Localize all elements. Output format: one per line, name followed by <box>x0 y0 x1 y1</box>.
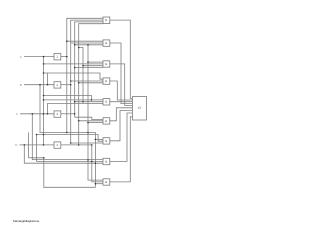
inverter IC <box>54 111 61 117</box>
vertical 36.5 to G8 <box>37 135 104 162</box>
wire B jog x47.5 up to y73 <box>47 73 49 85</box>
bus C x=32.3 to G8 <box>32 114 103 160</box>
wire G9 input 3 <box>95 183 103 185</box>
wire y73 jog x100 to G4 <box>44 73 104 79</box>
bus VB x=40 <box>40 85 88 133</box>
svg-text:1: 1 <box>56 83 58 87</box>
bus Dinv x=78.7 <box>79 24 103 145</box>
wire y95.5 jog x91.5 to G5 <box>44 96 92 100</box>
inverter IA <box>54 54 61 60</box>
vertical 24.3 from D to G8 <box>24 145 103 163</box>
wire G6 input 2 <box>79 120 103 122</box>
svg-text:1: 1 <box>56 55 58 59</box>
input line D <box>20 144 55 146</box>
and-gate G7 <box>103 138 110 144</box>
bus VA x=43.5 <box>43 57 45 145</box>
inverter IB <box>54 82 61 88</box>
bus Binv x=70.7 <box>71 20 103 143</box>
inverter ID <box>54 142 61 148</box>
junction dots <box>43 56 45 58</box>
inverter B output <box>60 84 70 86</box>
input line B <box>24 84 54 86</box>
wire G6 output <box>109 108 132 121</box>
wire G5 inputs <box>44 99 104 101</box>
and-gate G9 <box>103 179 110 185</box>
wire G2 inputs <box>67 40 103 42</box>
inverter C output <box>60 113 74 115</box>
wire G4 output <box>109 81 132 100</box>
wire G3 input 1 <box>88 61 103 63</box>
wire G4 inputs <box>71 80 103 82</box>
wire G8 output <box>109 113 132 161</box>
wire G3 input 4 <box>75 67 103 69</box>
wire G3 input 2 from A bus <box>44 63 104 65</box>
svg-text:1: 1 <box>56 143 58 147</box>
wire G1 output <box>109 20 132 98</box>
svg-text:≥1: ≥1 <box>138 105 142 109</box>
svg-text:1: 1 <box>56 112 58 116</box>
vertical 28.4 <box>27 133 29 158</box>
and-gate G3 <box>103 61 110 67</box>
and-gate G5 <box>103 99 110 105</box>
and-gate G4 <box>103 78 110 84</box>
wire G7 output <box>109 110 132 140</box>
wire G9 output <box>109 117 132 182</box>
or-gate U1 <box>132 97 146 121</box>
and-gate G6 <box>103 118 110 124</box>
inverter A output <box>60 56 67 58</box>
and-gate G8 <box>103 158 110 164</box>
wire ID output jog x91.8 to G9 <box>60 145 103 182</box>
input line A <box>24 56 54 58</box>
wire G6 input 3 <box>88 122 103 124</box>
wire y47.5 jog x83 <box>79 48 83 102</box>
and-gate G2 <box>103 40 110 46</box>
bus Cinv x=74.7 <box>75 22 103 117</box>
wire G3 output <box>109 64 132 106</box>
wire G2 output <box>109 43 132 104</box>
wire G7 input 1 <box>95 138 103 140</box>
wire L3 to G7 in2 <box>37 135 104 142</box>
svg-text:Karnaughdiagramme: Karnaughdiagramme <box>13 219 40 223</box>
input line C <box>20 113 54 115</box>
and-gate G1 <box>103 17 110 24</box>
wire G6 input1 jog x91.8 <box>75 117 103 119</box>
vertical x88 <box>88 45 103 180</box>
wire L1 to G9 bottom <box>28 158 95 188</box>
svg-text:D: D <box>15 143 18 147</box>
wire C jog x47.5 to G5 <box>48 104 104 114</box>
wire L2 end jog to G7 in1 <box>88 133 95 188</box>
bus Ainv x=66.8 <box>67 18 103 132</box>
wire G3 input 3 <box>83 65 103 67</box>
svg-text:B: B <box>20 83 22 87</box>
svg-text:A: A <box>20 55 22 59</box>
wire G5 output <box>109 101 132 103</box>
svg-text:C: C <box>16 112 19 116</box>
wire G7 input 3 <box>71 142 103 144</box>
